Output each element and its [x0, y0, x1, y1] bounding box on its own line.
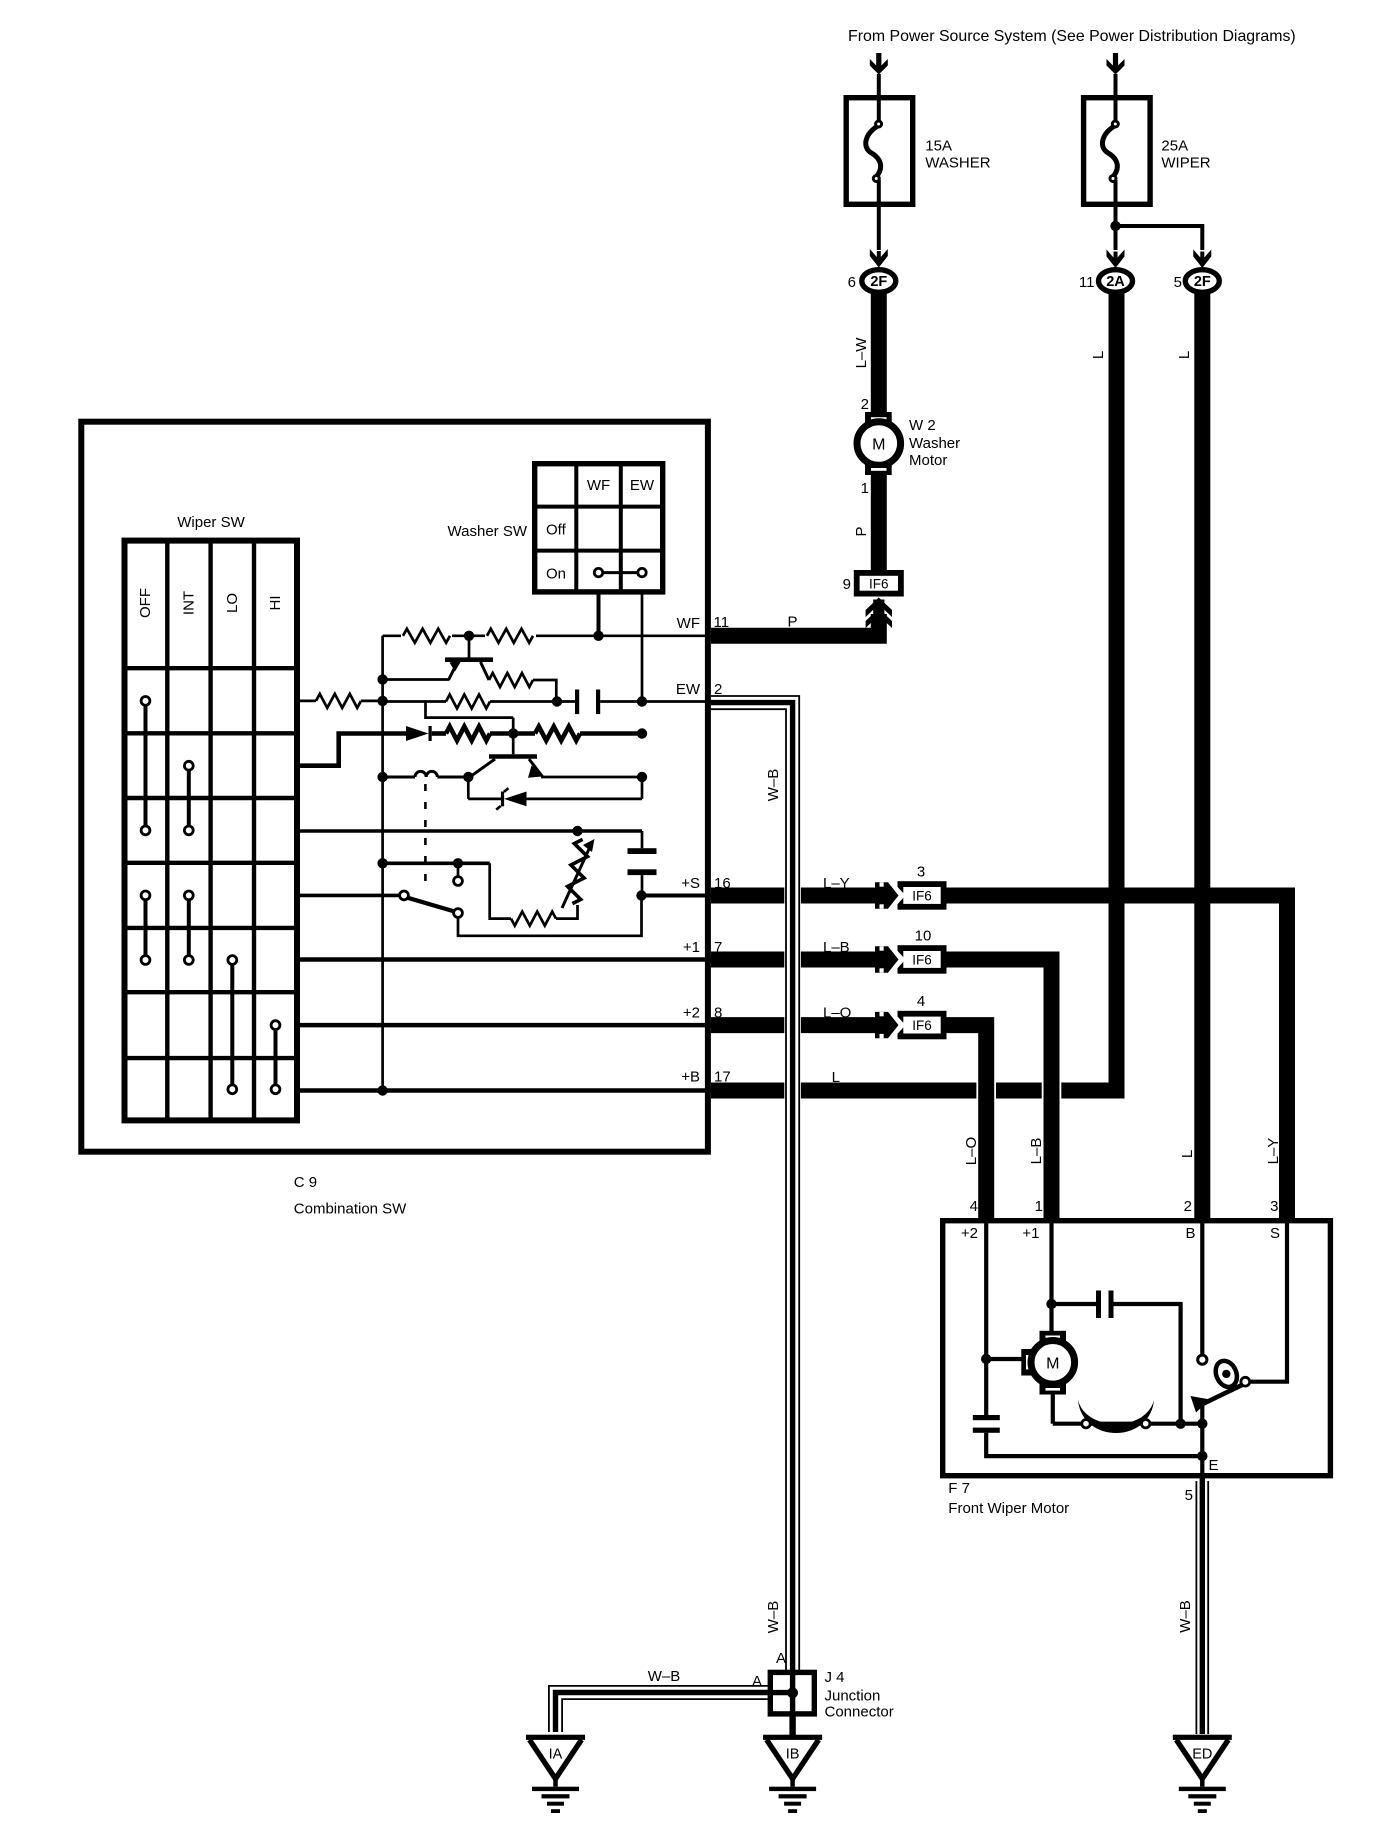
svg-text:L: L [1179, 1150, 1196, 1158]
svg-text:W–B: W–B [1177, 1600, 1194, 1633]
svg-text:Motor: Motor [909, 452, 947, 469]
wire zener row right [527, 798, 643, 801]
wire commutator row [1053, 1422, 1203, 1426]
wiper SW link HI rows7-8 [274, 1025, 278, 1089]
capacitor C1 right plate [596, 690, 600, 715]
node +B left bus junction [377, 1085, 387, 1095]
svg-text:2: 2 [1184, 1198, 1192, 1215]
transistor Q2 collector [471, 759, 496, 777]
svg-text:Junction: Junction [825, 1688, 881, 1705]
svg-text:P: P [788, 614, 798, 631]
fuse element 15A [866, 126, 881, 177]
washer motor W2 terminal block bottom [865, 462, 892, 475]
node J4 center [787, 1687, 798, 1698]
wire relay contact row [383, 861, 490, 865]
motor M2 top brush block [1040, 1331, 1067, 1344]
node WF-R junction [464, 631, 474, 641]
wire motor +2 internal [984, 1223, 988, 1415]
zener diode D2 [504, 792, 527, 807]
wire L-B +1 heavy to IF6 10 [711, 952, 877, 968]
svg-text:W 2: W 2 [909, 417, 936, 434]
park switch lever [1200, 1404, 1204, 1424]
svg-text:IA: IA [549, 1747, 563, 1763]
wiper SW link INT rows3-4 [187, 766, 191, 831]
wire zener row to EW column [641, 777, 644, 799]
wiper table row line 2 [125, 731, 298, 735]
resistor R7 on diode row [535, 727, 580, 741]
wiper switch table frame [125, 541, 298, 1121]
svg-text:E: E [1209, 1457, 1219, 1474]
svg-text:+S: +S [681, 875, 700, 892]
wire E terminal vertical [1200, 1424, 1204, 1478]
svg-text:W–B: W–B [648, 1668, 681, 1685]
VR1 arrow [562, 849, 589, 908]
svg-text:L–W: L–W [853, 337, 870, 369]
wire VR bottom to R8 row [556, 905, 578, 919]
svg-text:+1: +1 [683, 939, 700, 956]
wire R3 to EW row [533, 680, 556, 702]
transistor Q1 base stub [468, 636, 471, 658]
wire motor bottom lead [1051, 1395, 1055, 1424]
wire L-O +2 heavy to IF6 4 [711, 1017, 877, 1033]
svg-text:2F: 2F [1194, 274, 1211, 290]
node EW column row junction [637, 696, 647, 706]
wire motor S internal [1250, 1223, 1287, 1382]
node motor left lead junction [981, 1354, 991, 1364]
wiper table row line 4 [125, 861, 298, 865]
relay switch lever [408, 898, 455, 912]
wire C4 left lead [1052, 1302, 1097, 1306]
svg-text:L: L [832, 1069, 840, 1086]
node commutator C4 junction [1175, 1419, 1185, 1429]
wire zener row left [468, 798, 504, 801]
relay contact B [454, 877, 463, 886]
connector 6 2F oval [862, 270, 896, 293]
svg-text:IF6: IF6 [912, 888, 932, 903]
transistor Q2 emitter [529, 759, 542, 776]
resistor R2 on WF row [485, 629, 536, 643]
wire +2 row [299, 1023, 712, 1028]
node E bottom row junction [1197, 1451, 1207, 1461]
capacitor C4 right plate [1109, 1291, 1114, 1319]
wire EW row bus to RC tee [383, 700, 446, 703]
wiper table row line 6 [125, 990, 298, 994]
diode D1 [406, 726, 429, 741]
svg-text:ED: ED [1192, 1747, 1212, 1763]
svg-text:L–B: L–B [823, 939, 850, 956]
node C4 junction [1046, 1299, 1056, 1309]
wire Q2 emitter to EW column [541, 776, 642, 779]
washer motor W2 terminal block top [865, 412, 892, 425]
connector 4 IF6 box with arrow [900, 1014, 943, 1037]
wire WF heavy from C9 to IF6 9 [711, 614, 879, 636]
svg-text:W–B: W–B [765, 769, 782, 802]
svg-text:Combination SW: Combination SW [294, 1201, 407, 1218]
mechanical link dashed [424, 784, 427, 889]
relay switch pivot contact [400, 891, 409, 900]
wire fuse 25A top lead [1114, 74, 1118, 122]
svg-text:Washer: Washer [909, 435, 960, 452]
svg-text:WF: WF [587, 477, 610, 494]
svg-text:L: L [1176, 351, 1193, 359]
wire L heavy 2A to +B [1109, 293, 1125, 1093]
svg-text:10: 10 [915, 928, 932, 945]
wire fuse 15A top lead [877, 74, 881, 122]
power feed arrow to fuse 25A [1113, 53, 1118, 70]
wire coil to collector node [437, 776, 468, 779]
wire +1 row [299, 957, 712, 962]
svg-text:+B: +B [681, 1069, 700, 1086]
commutator crescent [1078, 1400, 1154, 1433]
washer motor W2 motor circle [857, 422, 901, 466]
wire WF internal row [383, 634, 711, 637]
wire motor +1 internal [1049, 1223, 1053, 1332]
svg-text:25A: 25A [1161, 138, 1188, 155]
power feed arrow to fuse 15A [876, 53, 881, 70]
wire diode to R6 [432, 731, 446, 736]
wire C2 to +S node [641, 875, 644, 895]
connector arrow 5 2F [1193, 250, 1211, 269]
svg-text:1: 1 [861, 480, 869, 497]
fuse 15A WASHER box [846, 98, 913, 205]
svg-text:Front Wiper Motor: Front Wiper Motor [948, 1500, 1069, 1517]
wire L-B heavy IF6 10 to motor +1 [944, 960, 1052, 1224]
node washer SW WF column junction [593, 631, 603, 641]
relay coil L1 [415, 771, 437, 777]
svg-text:L–O: L–O [823, 1005, 851, 1022]
svg-text:LO: LO [224, 593, 241, 613]
node C1 left junction [552, 696, 562, 706]
svg-text:L–Y: L–Y [823, 875, 850, 892]
svg-text:2: 2 [861, 396, 869, 413]
svg-text:+2: +2 [683, 1005, 700, 1022]
svg-text:EW: EW [676, 681, 701, 698]
wire C5 bottom lead and bottom row [986, 1433, 1202, 1456]
resistor R8 [511, 912, 556, 926]
svg-text:L: L [1090, 351, 1107, 359]
ground ED [1173, 1735, 1232, 1740]
svg-text:5: 5 [1174, 274, 1182, 291]
svg-text:F 7: F 7 [948, 1480, 970, 1497]
motor M2 left brush block [1021, 1349, 1033, 1376]
svg-text:M: M [1046, 1355, 1059, 1372]
capacitor C5 top plate [973, 1415, 1000, 1420]
motor M2 bottom brush block [1040, 1382, 1067, 1395]
svg-text:L–Y: L–Y [1265, 1138, 1282, 1165]
fuse 25A WIPER box [1084, 98, 1151, 205]
wire C4 right lead [1114, 1304, 1181, 1424]
wire contact B stub [457, 863, 460, 876]
capacitor C4 left plate [1096, 1291, 1101, 1319]
node EW row left bus junction [377, 696, 387, 706]
washer switch table frame [535, 464, 663, 592]
svg-text:Wiper SW: Wiper SW [177, 514, 245, 531]
washer table column line WF [574, 464, 578, 592]
wire motor B internal [1200, 1223, 1204, 1355]
wire branch to connector 5 2F [1116, 226, 1203, 250]
node Q2 base column junction [508, 728, 518, 738]
relay contact A [454, 909, 463, 918]
wire W-B motor E to ground ED (triple line) [1195, 1481, 1197, 1734]
node Q1 emitter bus junction [377, 674, 387, 684]
wire L-Y +S heavy to IF6 3 [711, 888, 877, 904]
svg-text:Connector: Connector [825, 1704, 894, 1721]
resistor R4 row2 input [316, 694, 361, 708]
svg-text:W–B: W–B [765, 1601, 782, 1634]
park cam [1212, 1358, 1241, 1391]
node +S junction [636, 890, 646, 900]
node EW column emitter junction [637, 772, 647, 782]
wire R6 to Q2 base node [490, 731, 513, 736]
washer SW On continuity link [602, 571, 638, 574]
svg-text:3: 3 [1270, 1198, 1278, 1215]
wiper table column line 2 [208, 541, 212, 1121]
wire R8 to contact row riser [490, 863, 511, 918]
wire C1 to EW column [600, 700, 642, 703]
svg-text:On: On [546, 565, 566, 582]
wire +B row [299, 1088, 712, 1093]
resistor R3 Q1 collector [489, 673, 533, 687]
wire RC tee down-jog to Q2 base column [426, 702, 514, 718]
combination switch C9 box [81, 422, 708, 1152]
node EW column diode row junction [637, 728, 647, 738]
front wiper motor F7 box [943, 1221, 1331, 1476]
ground IB [763, 1735, 822, 1740]
wire washer SW WF column stub [597, 592, 601, 636]
washer table column line EW [619, 464, 623, 592]
park contact B [1198, 1355, 1207, 1364]
svg-text:9: 9 [843, 576, 851, 593]
wire P washer motor to IF6 (heavy) [871, 474, 887, 572]
connector 5 2F oval [1185, 270, 1219, 293]
wire Q1 emitter to left bus [383, 678, 449, 681]
wire +S row from wiper table [299, 894, 401, 898]
svg-text:IF6: IF6 [912, 1018, 932, 1033]
svg-text:IF6: IF6 [912, 952, 932, 967]
svg-text:Washer SW: Washer SW [448, 523, 528, 540]
commutator contact right [1142, 1420, 1150, 1428]
node Q2 collector junction [463, 772, 473, 782]
svg-text:A: A [752, 1673, 762, 1690]
svg-text:5: 5 [1185, 1487, 1193, 1504]
wire L-O heavy IF6 4 to motor +2 [944, 1025, 986, 1223]
wire timing row to capacitor C2 [641, 831, 644, 848]
node contact B stub junction [453, 858, 463, 868]
connector arrow 6 2F [870, 249, 888, 268]
svg-text:IB: IB [786, 1747, 800, 1763]
svg-text:WF: WF [677, 615, 700, 632]
wire L-Y heavy IF6 3 to motor S [944, 896, 1287, 1224]
wiper SW link LO rows6-8 [230, 960, 234, 1089]
connector 3 IF6 box with arrow [900, 884, 943, 907]
wiper table column line 3 [252, 541, 256, 1121]
wire W-B EW to J4 junction (triple line) [784, 880, 801, 1105]
node VR top junction [572, 826, 582, 836]
resistor R1 on WF row [401, 629, 452, 643]
washer table row line 1 [535, 505, 663, 509]
wire motor left lead [986, 1357, 1022, 1361]
svg-text:Off: Off [546, 521, 567, 538]
svg-text:WIPER: WIPER [1161, 155, 1210, 172]
svg-text:15A: 15A [925, 138, 952, 155]
svg-text:P: P [853, 526, 870, 536]
wire J4 to ground IB stem [789, 1713, 795, 1735]
wiper table row line 5 [125, 926, 298, 930]
wiper table row line 3 [125, 796, 298, 800]
wire fuse 15A bottom lead [877, 180, 881, 250]
fuse element 25A [1102, 126, 1117, 177]
wiper SW link OFF rows2-4 [144, 701, 148, 831]
junction connector J4 box [770, 1672, 814, 1714]
wire L-W fuse to washer motor (heavy) [871, 293, 887, 415]
connector 10 IF6 box with arrow [900, 948, 943, 971]
connector arrow up into IF6 9 [866, 598, 892, 618]
capacitor C2 top plate [628, 848, 657, 854]
svg-text:C 9: C 9 [294, 1174, 317, 1191]
wire fuse 25A bottom lead [1114, 180, 1118, 250]
svg-text:S: S [1270, 1225, 1280, 1242]
wire R7 to EW column [580, 731, 642, 736]
svg-text:B: B [1185, 1225, 1195, 1242]
wire zener branch down [467, 777, 470, 799]
wire +S row to box edge [642, 894, 712, 898]
svg-text:4: 4 [917, 993, 925, 1010]
resistor R5 EW row RC [446, 695, 490, 709]
node branch below fuse 25A [1110, 221, 1120, 231]
washer table row line 2 [535, 549, 663, 553]
wire EW internal row left of resistor [299, 700, 317, 703]
capacitor C2 bottom plate [628, 869, 657, 875]
wire R4 to left bus [361, 700, 383, 703]
svg-text:WASHER: WASHER [925, 155, 990, 172]
svg-text:J 4: J 4 [825, 1669, 845, 1686]
svg-text:+1: +1 [1022, 1225, 1039, 1242]
transistor Q2 base bar [489, 754, 537, 759]
capacitor C5 bottom plate [973, 1428, 1000, 1433]
wire contact A to lower run [458, 896, 642, 936]
connector 9 IF6 box [857, 573, 901, 594]
wire left vertical bus of C9 circuit [381, 636, 384, 1091]
wire L heavy 2F-5 to motor B [1194, 293, 1210, 1224]
wire coil row from bus [383, 776, 415, 779]
svg-text:+2: +2 [961, 1225, 978, 1242]
svg-text:M: M [872, 437, 885, 454]
svg-text:11: 11 [714, 614, 730, 631]
wire washer SW EW column stub [641, 592, 644, 702]
svg-text:4: 4 [970, 1198, 978, 1215]
wiper table column line 1 [165, 541, 169, 1121]
wiper SW link INT rows5-6 [187, 895, 191, 960]
ground IA [526, 1735, 585, 1740]
transistor Q1 base bar [445, 657, 493, 662]
motor M2 circle [1031, 1341, 1075, 1385]
wire J4 internal to IA branch [769, 1690, 793, 1695]
svg-text:INT: INT [180, 591, 197, 615]
svg-text:IF6: IF6 [869, 576, 889, 591]
wire R5 to capacitor C1 [490, 700, 575, 703]
svg-text:6: 6 [848, 274, 856, 291]
svg-text:L–O: L–O [963, 1137, 980, 1165]
transistor Q2 base stub [512, 718, 515, 755]
svg-text:A: A [776, 1650, 786, 1667]
wire timing row from wiper table [299, 829, 643, 833]
wiper SW link OFF rows5-6 [144, 895, 148, 960]
svg-text:From Power Source System (See: From Power Source System (See Power Dist… [848, 28, 1296, 45]
wire INT row jog to diode row [299, 734, 407, 766]
svg-text:1: 1 [1035, 1198, 1043, 1215]
wiper table row line 7 [125, 1056, 298, 1060]
variable resistor VR1 [565, 838, 590, 905]
commutator contact left [1082, 1420, 1090, 1428]
transistor Q1 emitter [449, 662, 458, 680]
connector arrow 11 2A [1107, 250, 1125, 269]
node park lever junction [1197, 1419, 1207, 1429]
node coil row left bus junction [377, 772, 387, 782]
svg-text:L–B: L–B [1028, 1138, 1045, 1165]
wire +B heavy to 2A feed [711, 1083, 1125, 1099]
svg-text:OFF: OFF [137, 588, 154, 618]
wiper table row line 1 [125, 666, 298, 670]
connector 11 2A oval [1099, 270, 1133, 293]
svg-text:EW: EW [630, 477, 655, 494]
park contact S [1241, 1377, 1250, 1386]
svg-text:11: 11 [1079, 274, 1095, 291]
wire base node to R7 [513, 731, 535, 736]
svg-text:3: 3 [917, 864, 925, 881]
wire EW row to box edge [642, 700, 711, 703]
transistor Q1 collector [481, 662, 490, 680]
node relay contact row bus junction [377, 858, 387, 868]
svg-text:HI: HI [267, 596, 284, 611]
resistor R6 on diode row [446, 727, 490, 741]
capacitor C1 left plate [575, 690, 579, 715]
svg-text:2A: 2A [1106, 274, 1125, 290]
wire W-B J4 to ground IA (triple line) [549, 1686, 771, 1732]
svg-text:2F: 2F [870, 274, 887, 290]
